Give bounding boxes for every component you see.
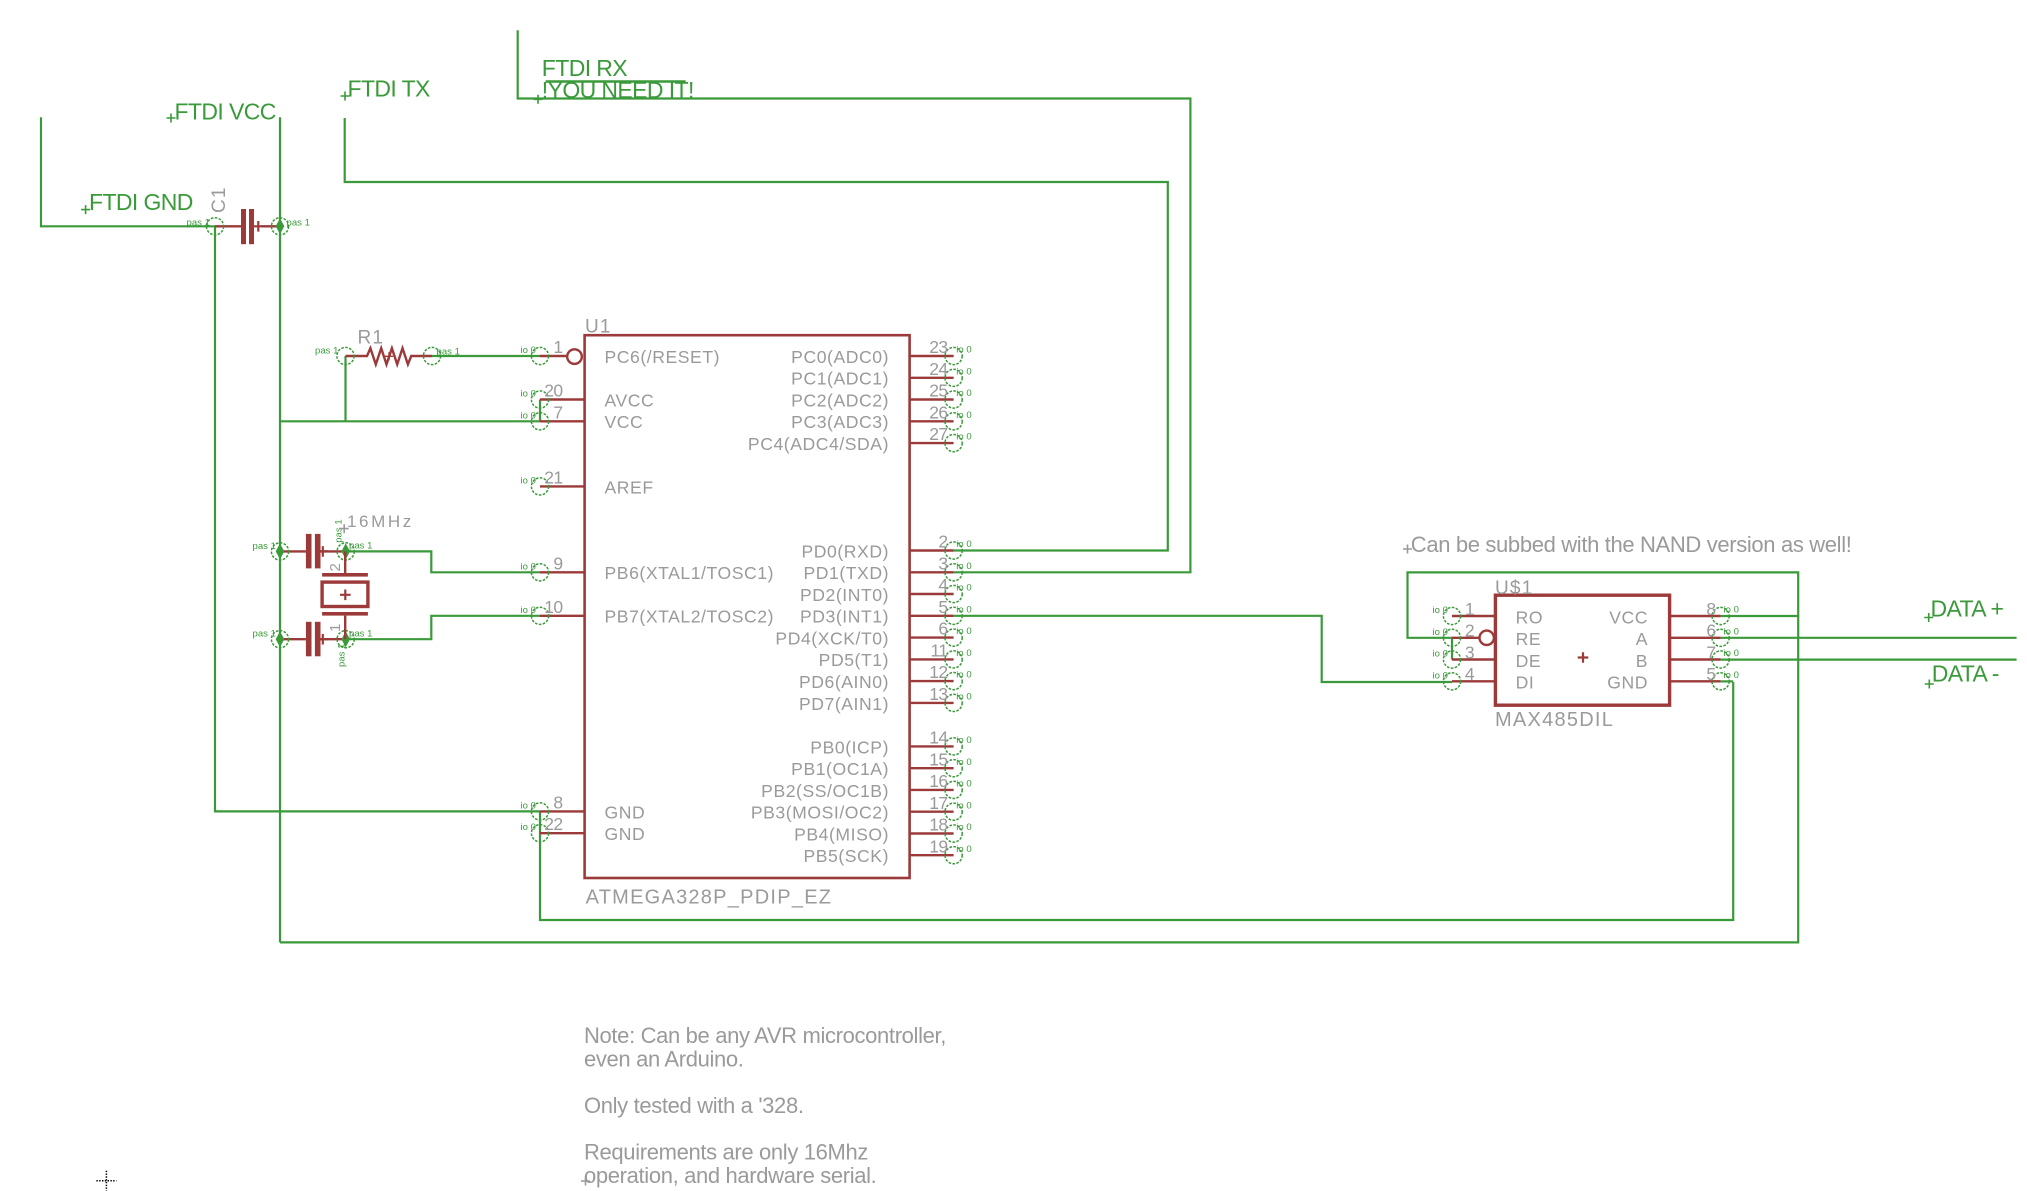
svg-text:1: 1 — [1465, 599, 1474, 619]
svg-text:io 0: io 0 — [1432, 649, 1448, 660]
svg-text:pas 1: pas 1 — [315, 346, 339, 357]
junction C2 pad1 / VCC rail — [276, 543, 285, 559]
wire FTDI GND net: left drop and horizontal to C1 — [41, 117, 215, 226]
U1 pin 10 PB7(XTAL2/TOSC2) — [540, 615, 585, 617]
svg-text:22: 22 — [544, 814, 562, 834]
svg-text:Note: Can be any AVR microcont: Note: Can be any AVR microcontroller, — [584, 1023, 946, 1048]
svg-text:PB0(ICP): PB0(ICP) — [810, 737, 889, 757]
svg-text:3: 3 — [938, 553, 947, 573]
svg-text:PB4(MISO): PB4(MISO) — [794, 824, 889, 844]
MAX485 pin 6 A — [1670, 637, 1721, 639]
svg-text:DATA -: DATA - — [1932, 661, 1999, 687]
U1 pin 20 AVCC — [540, 398, 585, 400]
resistor R1 — [346, 348, 433, 364]
svg-text:PB2(SS/OC1B): PB2(SS/OC1B) — [761, 781, 889, 801]
svg-text:io 0: io 0 — [956, 432, 972, 443]
svg-text:io 0: io 0 — [520, 475, 536, 486]
wire GND rail: C1 pad 1 down to U1 GND pin 8 — [215, 226, 540, 811]
svg-text:U1: U1 — [585, 317, 612, 338]
svg-text:6: 6 — [1706, 621, 1715, 641]
U1 pin 13 PD7(AIN1) — [910, 702, 954, 704]
svg-text:io 0: io 0 — [956, 626, 972, 637]
svg-text:11: 11 — [931, 641, 948, 661]
svg-text:DE: DE — [1516, 651, 1542, 671]
svg-text:PC4(ADC4/SDA): PC4(ADC4/SDA) — [748, 434, 889, 454]
U1 pin 22 GND — [540, 832, 585, 834]
svg-text:18: 18 — [929, 815, 947, 835]
svg-text:io 0: io 0 — [956, 670, 972, 681]
svg-text:io 0: io 0 — [956, 757, 972, 768]
label 16MHz — [340, 524, 349, 533]
svg-text:10: 10 — [544, 597, 563, 617]
svg-text:io 0: io 0 — [1724, 670, 1740, 681]
U1 pin 18 PB4(MISO) — [910, 832, 954, 834]
net label FTDI TX — [341, 92, 350, 101]
svg-text:VCC: VCC — [1609, 607, 1648, 627]
svg-text:20: 20 — [544, 381, 563, 401]
svg-text:PB6(XTAL1/TOSC1): PB6(XTAL1/TOSC1) — [605, 563, 774, 583]
U1 pin 25 PC2(ADC2) — [910, 398, 954, 400]
svg-text:4: 4 — [1465, 664, 1475, 684]
svg-text:GND: GND — [605, 802, 646, 822]
svg-text:DATA +: DATA + — [1931, 596, 2004, 622]
svg-text:B: B — [1636, 651, 1648, 671]
svg-text:io 0: io 0 — [520, 561, 536, 572]
svg-text:io 0: io 0 — [1724, 626, 1740, 637]
svg-text:io 0: io 0 — [1432, 605, 1448, 616]
svg-text:io 0: io 0 — [1432, 670, 1448, 681]
U1 pin 2 PD0(RXD) — [910, 549, 954, 551]
svg-text:PD6(AIN0): PD6(AIN0) — [799, 672, 889, 692]
svg-text:PD0(RXD): PD0(RXD) — [802, 541, 890, 561]
svg-text:5: 5 — [1706, 664, 1715, 684]
svg-text:PD7(AIN1): PD7(AIN1) — [799, 694, 889, 714]
U1 pin 4 PD2(INT0) — [910, 593, 954, 595]
svg-text:PB3(MOSI/OC2): PB3(MOSI/OC2) — [751, 803, 889, 823]
U1 pin 11 PD5(T1) — [910, 658, 954, 660]
svg-text:15: 15 — [929, 749, 947, 769]
wire MAX485 VCC pin 8 to riser — [1721, 615, 1799, 617]
U1 pin 1 PC6(/RESET) — [540, 355, 567, 357]
svg-text:io 0: io 0 — [520, 800, 536, 811]
svg-text:io 0: io 0 — [520, 822, 536, 833]
MAX485 pin 2 RE — [1452, 637, 1479, 639]
svg-text:pas 1: pas 1 — [336, 644, 347, 668]
svg-text:17: 17 — [929, 793, 947, 813]
svg-text:io 0: io 0 — [956, 604, 972, 615]
wire R1 pad 1 down to VCC rail — [344, 356, 346, 421]
U1 pin 16 PB2(SS/OC1B) — [910, 789, 954, 791]
U1 pin 14 PB0(ICP) — [910, 745, 954, 747]
svg-text:Requirements are only 16Mhz: Requirements are only 16Mhz — [584, 1140, 868, 1165]
capacitor C1 — [215, 225, 241, 227]
svg-text:7: 7 — [1706, 642, 1715, 662]
svg-text:io 0: io 0 — [956, 822, 972, 833]
crystal Q1 16MHz — [344, 551, 346, 573]
net label DATA + — [1924, 613, 1933, 622]
U1 pin 12 PD6(AIN0) — [910, 680, 954, 682]
U1 pin 19 PB5(SCK) — [910, 854, 954, 856]
junction C2 pad2 / crystal pin — [341, 543, 350, 559]
svg-text:Can be subbed with the NAND ve: Can be subbed with the NAND version as w… — [1411, 532, 1852, 557]
svg-text:io 0: io 0 — [520, 410, 536, 421]
svg-text:io 0: io 0 — [956, 561, 972, 572]
svg-text:14: 14 — [929, 728, 948, 748]
wire VCC rail to U1 VCC pin 7 — [280, 420, 540, 422]
svg-text:io 0: io 0 — [520, 345, 536, 356]
wire MAX485 B pin 7 to DATA - — [1721, 658, 2017, 660]
svg-text:PD1(TXD): PD1(TXD) — [803, 563, 889, 583]
svg-text:pas 1: pas 1 — [349, 628, 373, 639]
svg-text:io 0: io 0 — [956, 800, 972, 811]
svg-text:Only tested with a '328.: Only tested with a '328. — [584, 1093, 804, 1118]
svg-text:26: 26 — [929, 402, 947, 422]
svg-text:16: 16 — [929, 771, 947, 791]
U1 pin 21 AREF — [540, 485, 585, 487]
svg-text:7: 7 — [553, 402, 562, 422]
svg-text:io 0: io 0 — [956, 779, 972, 790]
svg-text:operation, and hardware serial: operation, and hardware serial. — [584, 1163, 876, 1188]
U1 pin 27 PC4(ADC4/SDA) — [910, 442, 954, 444]
svg-text:AVCC: AVCC — [605, 390, 655, 410]
svg-text:PC6(/RESET): PC6(/RESET) — [605, 347, 721, 367]
svg-text:C1: C1 — [209, 186, 230, 213]
svg-text:24: 24 — [929, 359, 948, 379]
svg-text:U$1: U$1 — [1495, 578, 1533, 599]
svg-text:2: 2 — [938, 532, 947, 552]
svg-text:PD3(INT1): PD3(INT1) — [800, 607, 889, 627]
wire MAX485 GND pin 5 to bottom GND rail — [1721, 680, 1734, 682]
capacitor C2 (crystal top) — [280, 550, 306, 552]
U1 pin 8 GND — [540, 810, 585, 812]
svg-text:ATMEGA328P_PDIP_EZ: ATMEGA328P_PDIP_EZ — [586, 887, 833, 909]
net label DATA - — [1925, 680, 1934, 689]
wire U1 AVCC pin 20 tie to VCC pin 7 — [539, 400, 541, 422]
svg-text:RE: RE — [1516, 629, 1542, 649]
svg-text:io 0: io 0 — [956, 735, 972, 746]
wire bottom VCC rail to MAX485 VCC riser — [280, 572, 1798, 942]
IC U1 ATMEGA328P_PDIP_EZ body — [585, 335, 910, 878]
svg-text:pas 1: pas 1 — [187, 218, 211, 229]
svg-text:io 0: io 0 — [1724, 605, 1740, 616]
junction C3 pad2 / crystal pin — [341, 631, 350, 647]
note Can be subbed with the NAND version as well! — [1403, 545, 1412, 554]
IC U$1 MAX485DIL body — [1495, 595, 1669, 705]
wire FTDI TX: label drop, across, down to U1 PD0 RXD pin 2 — [345, 118, 1168, 551]
svg-text:25: 25 — [929, 381, 947, 401]
net label FTDI RX / !YOU NEED IT! — [534, 95, 543, 104]
wire MAX485 RE pin 2 to DE pin 3 tie — [1451, 638, 1453, 660]
U1 pin 15 PB1(OC1A) — [910, 767, 954, 769]
svg-text:PB5(SCK): PB5(SCK) — [803, 846, 889, 866]
svg-text:pas 1: pas 1 — [253, 541, 277, 552]
svg-text:MAX485DIL: MAX485DIL — [1495, 709, 1614, 731]
U1 pin 9 PB6(XTAL1/TOSC1) — [540, 571, 585, 573]
svg-text:VCC: VCC — [605, 412, 644, 432]
svg-text:GND: GND — [1607, 673, 1648, 693]
svg-text:23: 23 — [929, 337, 947, 357]
MAX485 pin 1 RO — [1452, 615, 1495, 617]
svg-text:21: 21 — [544, 467, 562, 487]
note bottom text block — [581, 1177, 590, 1186]
svg-text:PC0(ADC0): PC0(ADC0) — [791, 347, 889, 367]
svg-text:pas 1: pas 1 — [349, 541, 373, 552]
U1 pin 17 PB3(MOSI/OC2) — [910, 811, 954, 813]
svg-text:pas 1: pas 1 — [287, 218, 311, 229]
svg-text:io 0: io 0 — [956, 388, 972, 399]
U1 pin 24 PC1(ADC1) — [910, 377, 954, 379]
svg-text:PB7(XTAL2/TOSC2): PB7(XTAL2/TOSC2) — [605, 607, 774, 627]
MAX485 pin 5 GND — [1670, 680, 1721, 682]
net label FTDI GND — [81, 205, 90, 214]
svg-text:io 0: io 0 — [520, 605, 536, 616]
svg-text:io 0: io 0 — [956, 366, 972, 377]
svg-text:io 0: io 0 — [956, 345, 972, 356]
wire U1 GND pins 8-22 tie and drop to bottom GND rail — [540, 682, 1733, 920]
svg-text:FTDI VCC: FTDI VCC — [175, 99, 276, 125]
svg-text:16MHz: 16MHz — [347, 512, 414, 531]
MAX485 pin 3 DE — [1452, 658, 1495, 660]
svg-text:1: 1 — [327, 624, 344, 632]
junction C1 pad2 / VCC rail — [276, 218, 285, 234]
U1 pin 6 PD4(XCK/T0) — [910, 636, 954, 638]
wire FTDI VCC net: vertical rail through C1 pad 2 and crystal caps — [279, 117, 281, 942]
svg-text:FTDI GND: FTDI GND — [89, 189, 193, 215]
svg-text:2: 2 — [327, 563, 344, 571]
capacitor C3 (crystal bottom) — [280, 638, 306, 640]
svg-text:pas 1: pas 1 — [333, 519, 344, 543]
svg-text:io 0: io 0 — [520, 389, 536, 400]
svg-text:AREF: AREF — [605, 477, 654, 497]
svg-text:5: 5 — [938, 597, 947, 617]
svg-text:12: 12 — [929, 662, 947, 682]
U1 pin 23 PC0(ADC0) — [910, 355, 954, 357]
MAX485 pin 4 DI — [1452, 680, 1495, 682]
svg-text:PD4(XCK/T0): PD4(XCK/T0) — [775, 629, 889, 649]
svg-text:DI: DI — [1516, 673, 1535, 693]
svg-text:13: 13 — [929, 684, 947, 704]
svg-text:GND: GND — [605, 824, 646, 844]
svg-text:io 0: io 0 — [1432, 627, 1448, 638]
svg-text:io 0: io 0 — [956, 539, 972, 550]
sheet origin marker (dotted crosshair) — [96, 1171, 116, 1191]
svg-text:6: 6 — [938, 619, 947, 639]
svg-text:pas 1: pas 1 — [253, 629, 277, 640]
svg-text:io 0: io 0 — [956, 583, 972, 594]
svg-text:19: 19 — [929, 836, 947, 856]
svg-text:PB1(OC1A): PB1(OC1A) — [791, 759, 889, 779]
svg-text:4: 4 — [938, 575, 948, 595]
svg-text:PC3(ADC3): PC3(ADC3) — [791, 412, 889, 432]
wire crystal cap C2 pad 2 to U1 PB6 XTAL1 pin 9 — [346, 551, 540, 572]
svg-text:9: 9 — [553, 553, 562, 573]
svg-text:1: 1 — [553, 337, 562, 357]
wire FTDI RX: stub up, across, down to U1 PD1 TXD pin 3 — [518, 30, 1191, 572]
U1 pin 7 VCC — [540, 420, 585, 422]
svg-text:8: 8 — [553, 792, 562, 812]
U1 pin 5 PD3(INT1) — [910, 615, 954, 617]
svg-text:R1: R1 — [358, 328, 385, 349]
wire crystal cap C3 pad 2 to U1 PB7 XTAL2 pin 10 — [346, 616, 540, 639]
svg-text:8: 8 — [1706, 599, 1715, 619]
svg-text:A: A — [1636, 629, 1648, 649]
MAX485 pin 8 VCC — [1670, 615, 1721, 617]
svg-text:io 0: io 0 — [956, 410, 972, 421]
svg-text:io 0: io 0 — [1724, 648, 1740, 659]
svg-text:even an Arduino.: even an Arduino. — [584, 1046, 744, 1071]
wire R1 pad 2 to U1 pin 1 /RESET — [432, 355, 540, 357]
svg-text:pas 1: pas 1 — [437, 347, 461, 358]
svg-text:2: 2 — [1465, 621, 1474, 641]
svg-text:PD5(T1): PD5(T1) — [819, 650, 889, 670]
svg-text:io 0: io 0 — [956, 648, 972, 659]
svg-text:io 0: io 0 — [956, 844, 972, 855]
wire U1 PD3 INT1 pin 5 to MAX485 DI pin 4 — [954, 616, 1452, 682]
svg-text:PC1(ADC1): PC1(ADC1) — [791, 369, 889, 389]
svg-text:PC2(ADC2): PC2(ADC2) — [791, 390, 889, 410]
svg-text:RO: RO — [1516, 607, 1544, 627]
svg-text:3: 3 — [1465, 642, 1474, 662]
U1 pin 3 PD1(TXD) — [910, 571, 954, 573]
svg-text:27: 27 — [929, 424, 947, 444]
svg-text:PD2(INT0): PD2(INT0) — [800, 585, 889, 605]
MAX485 pin 7 B — [1670, 658, 1721, 660]
U1 pin 26 PC3(ADC3) — [910, 420, 954, 422]
svg-text:io 0: io 0 — [956, 692, 972, 703]
net label FTDI VCC — [167, 114, 176, 123]
wire MAX485 A pin 6 to DATA + — [1721, 637, 2017, 639]
junction C3 pad1 / VCC rail — [276, 631, 285, 647]
svg-text:FTDI TX: FTDI TX — [348, 76, 431, 102]
